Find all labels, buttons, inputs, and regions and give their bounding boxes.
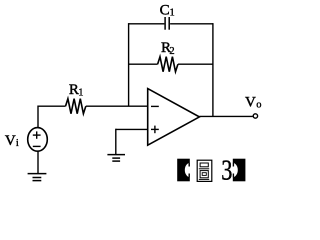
wire: top feedback branch left segment to C1	[129, 23, 165, 25]
op-amp U1	[148, 89, 200, 146]
svg-text:V: V	[245, 95, 256, 111]
wire: top feedback branch right segment from C1	[170, 23, 213, 25]
caption left lenticular bracket	[177, 159, 196, 182]
svg-text:1: 1	[78, 88, 83, 99]
svg-text:i: i	[16, 138, 19, 149]
wire: R2 branch left segment	[129, 63, 158, 65]
svg-text:3: 3	[221, 154, 232, 186]
output terminal node	[253, 114, 257, 118]
caption character 圖	[197, 160, 212, 181]
op-amp minus sign	[151, 105, 159, 107]
wire: left vertical of feedback loop	[128, 23, 130, 106]
resistor R2	[158, 57, 178, 72]
voltage source Vi	[28, 128, 48, 152]
capacitor C1	[165, 17, 169, 30]
caption right lenticular bracket	[226, 159, 245, 182]
svg-text:o: o	[256, 99, 261, 110]
wire: non-inverting input horizontal	[116, 128, 148, 130]
wire: non-inverting input down to ground	[115, 129, 117, 155]
wire: input node horizontal from source to R1	[38, 105, 66, 107]
svg-text:2: 2	[169, 46, 174, 57]
wire: R2 branch right segment	[178, 63, 213, 65]
voltage source Vi top wire	[37, 106, 39, 128]
resistor R1	[66, 99, 86, 114]
wire: right vertical of feedback loop	[212, 23, 214, 116]
ground (voltage source)	[28, 174, 47, 181]
svg-text:1: 1	[170, 7, 175, 18]
ground (op-amp non-inverting input)	[107, 155, 125, 162]
op-amp plus sign	[151, 126, 159, 134]
svg-text:C: C	[160, 3, 170, 19]
voltage source Vi bottom wire	[37, 151, 39, 173]
wire: op-amp output	[199, 115, 253, 117]
wire: from R1 to inverting input	[86, 105, 148, 107]
voltage source plus sign	[33, 131, 41, 138]
voltage source minus sign	[33, 145, 41, 147]
svg-text:V: V	[5, 133, 16, 149]
